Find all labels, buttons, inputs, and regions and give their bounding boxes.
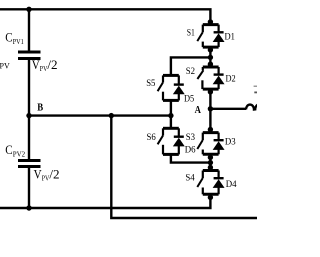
- capacitor CPV2: [18, 161, 41, 167]
- node S5-S6 B junction: [168, 113, 173, 118]
- svg-text:/2: /2: [49, 167, 59, 181]
- node bottom-left junction: [26, 205, 31, 210]
- diode D6: [174, 137, 184, 155]
- wire node A output: [210, 108, 246, 110]
- switch S2: [197, 61, 218, 94]
- switch S1: [197, 19, 218, 52]
- switch S3: [197, 127, 218, 160]
- wire S5-S6 vertical: [170, 100, 172, 128]
- svg-text:S4: S4: [185, 173, 194, 184]
- wire top DC+ bus: [0, 9, 210, 24]
- capacitor CPV1: [18, 52, 41, 59]
- switch S6: [158, 128, 179, 154]
- svg-text:/2: /2: [47, 58, 57, 72]
- svg-text:S6: S6: [147, 132, 156, 143]
- switch S4: [197, 165, 218, 200]
- svg-text:C: C: [5, 143, 12, 157]
- label VPV/2 upper: [32, 58, 58, 73]
- svg-text:A: A: [195, 105, 202, 116]
- svg-text:S3: S3: [186, 132, 195, 143]
- wire S3-S4 rail: [209, 154, 211, 170]
- node S6 rail junction: [208, 160, 213, 165]
- wire left rail upper: [28, 9, 30, 52]
- svg-text:D3: D3: [225, 137, 236, 148]
- svg-text:D4: D4: [226, 179, 237, 190]
- label VPV/2 lower: [34, 167, 60, 182]
- wire S1-S2 rail: [209, 47, 211, 67]
- svg-text:S1: S1: [187, 28, 195, 39]
- svg-text:B: B: [37, 102, 43, 113]
- wire left rail lower: [28, 167, 30, 209]
- label CPV1: [5, 30, 24, 46]
- diode D5: [174, 85, 184, 101]
- node S5 rail junction: [208, 55, 213, 60]
- svg-text:C: C: [5, 30, 12, 44]
- diode D2: [214, 75, 224, 90]
- node B-line mid junction: [109, 113, 114, 118]
- label CPV2: [5, 143, 25, 159]
- svg-text:S2: S2: [186, 66, 195, 77]
- wire S6 clamp lower: [171, 154, 211, 162]
- label partial right edge: [254, 86, 257, 94]
- wire left rail middle: [28, 59, 30, 161]
- diode D3: [214, 140, 224, 154]
- svg-text:D6: D6: [185, 145, 196, 156]
- svg-text:PV2: PV2: [13, 149, 26, 158]
- svg-text:D2: D2: [226, 73, 236, 84]
- wire S5 clamp upper: [171, 57, 211, 75]
- svg-text:S5: S5: [146, 78, 155, 89]
- svg-text:D1: D1: [225, 32, 235, 43]
- wire B to output return: [111, 116, 257, 218]
- svg-text:D5: D5: [184, 94, 194, 105]
- wire bottom DC- bus: [0, 194, 210, 208]
- diode D4: [214, 178, 224, 194]
- wire S2-S3 rail: [209, 89, 211, 133]
- svg-text:PV1: PV1: [13, 37, 24, 46]
- node top-left junction: [26, 7, 31, 12]
- switch S5: [158, 75, 179, 100]
- svg-text:PV: PV: [0, 61, 10, 70]
- wire node B horizontal: [29, 114, 171, 116]
- inductor L filter: [246, 104, 263, 109]
- diode D1: [214, 32, 224, 47]
- node B junction: [26, 113, 31, 118]
- node A junction: [208, 106, 213, 111]
